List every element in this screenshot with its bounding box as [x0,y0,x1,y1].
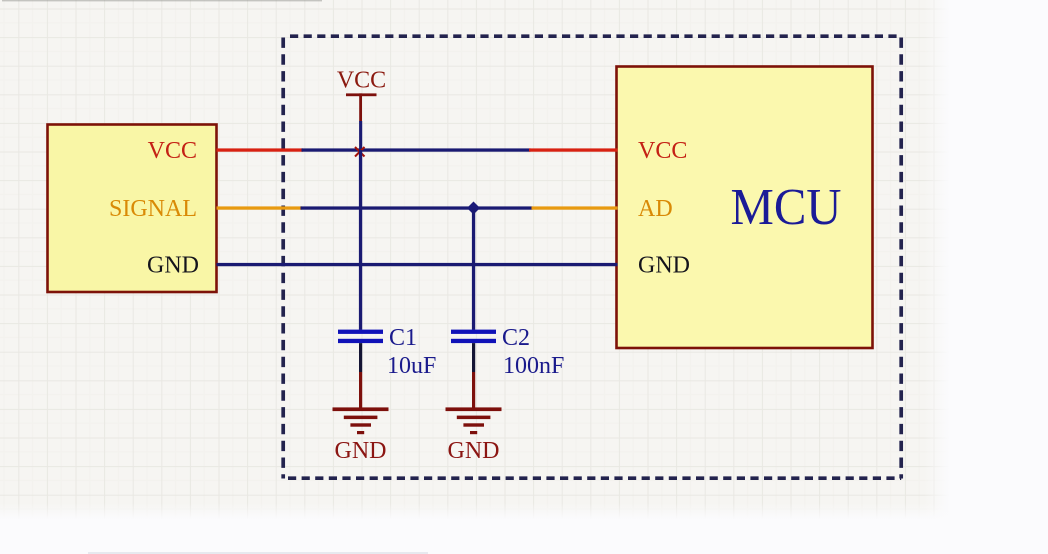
svg-text:C1: C1 [389,325,417,351]
svg-text:AD: AD [638,196,673,222]
svg-text:SIGNAL: SIGNAL [109,196,197,222]
wire: C2 bottom lead (navy upper part) [472,343,475,372]
wire: C1 bottom lead (navy upper part) [359,343,362,372]
ground symbol GND (under C1) [333,407,389,434]
capacitor C2 plates [451,330,496,343]
wire: C2 bottom lead to ground (dark red) [472,372,475,408]
junction cross (red X) at VCC net [355,147,365,157]
wire SIGNAL net: orange segment from sensor [217,206,303,209]
wire: C1 bottom lead to ground (dark red) [359,372,362,408]
wire GND net: navy horizontal [217,263,618,266]
MCU component box U1 [617,67,873,349]
svg-text:GND: GND [448,438,500,464]
wire: C2 vertical from SIGNAL net down to C2 [472,208,475,330]
svg-text:GND: GND [638,253,690,279]
svg-text:VCC: VCC [337,68,386,94]
svg-text:GND: GND [147,253,199,279]
ground symbol GND (under C2) [446,407,502,434]
svg-text:VCC: VCC [638,138,687,164]
dashed filter-circuit boundary box [283,36,901,478]
capacitor C1 plates [338,330,383,343]
wire VCC net: red segment from sensor [217,148,304,151]
svg-text:10uF: 10uF [387,353,436,379]
wire: C1 vertical from VCC net down to C1 [359,150,362,330]
svg-text:GND: GND [335,438,387,464]
svg-text:C2: C2 [502,325,530,351]
junction dot on SIGNAL net at C2 tap [467,201,480,214]
wire SIGNAL net: navy middle segment [301,206,533,209]
svg-text:MCU: MCU [731,179,842,236]
svg-text:VCC: VCC [148,138,197,164]
wire AD net: orange segment to MCU [532,206,618,209]
wire from VCC port down to VCC net [359,121,362,150]
sensor component box [48,125,217,293]
power port VCC: T-bar [346,93,377,96]
power port VCC: red stem [359,93,362,121]
svg-text:100nF: 100nF [503,353,564,379]
wire VCC net: red segment to MCU [529,148,618,151]
wire VCC net: navy middle segment [302,148,531,151]
